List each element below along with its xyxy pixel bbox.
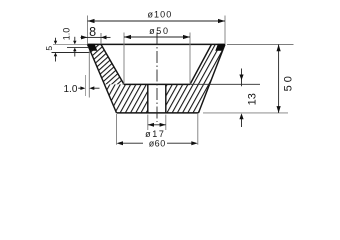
- dim 8 left arrow: [81, 36, 88, 38]
- dim 8 line: [88, 36, 102, 38]
- dim phi60 left segment: [122, 142, 144, 144]
- ext line phi100 left: [87, 16, 89, 45]
- dim line 50: [278, 44, 280, 113]
- wheel bottom face: [117, 112, 199, 114]
- dim 5 top arrow: [55, 38, 57, 41]
- ext line 1.0 step: [67, 47, 89, 49]
- wheel outer left slope: [88, 44, 117, 113]
- abrasive block top-left: [87, 44, 97, 51]
- ext line phi100 right: [224, 16, 226, 45]
- tick 1.0 wall left: [84, 75, 86, 96]
- wheel inner left slope: [101, 44, 124, 84]
- svg-text:1.0: 1.0: [63, 84, 77, 95]
- dim 1.0 wall left arrow: [78, 87, 82, 89]
- svg-text:13: 13: [247, 93, 259, 105]
- svg-text:1.0: 1.0: [61, 28, 71, 41]
- ext line 5 depth: [52, 52, 92, 54]
- wheel outer right slope: [199, 44, 226, 113]
- wheel inner right slope: [190, 44, 212, 84]
- ext line recess floor right: [190, 83, 260, 85]
- ext line rim 8: [100, 33, 102, 44]
- tick 1.0 wall right: [88, 51, 90, 98]
- ext line bore right: [165, 115, 167, 131]
- svg-text:ø60: ø60: [149, 139, 166, 149]
- ext line bottom face right: [203, 112, 288, 114]
- dim 5 bottom arrow: [55, 56, 57, 62]
- svg-text:8: 8: [89, 25, 96, 39]
- recess floor: [124, 83, 190, 85]
- dim 1.0 wall right arrow: [93, 87, 100, 89]
- dim phi60 right segment: [167, 142, 193, 144]
- dim 13 top arrow: [241, 69, 243, 87]
- ext line top face left: [53, 43, 88, 45]
- svg-text:ø50: ø50: [149, 26, 170, 36]
- dim line phi17: [148, 124, 166, 126]
- ext line bore left: [147, 115, 149, 131]
- bore left wall: [147, 84, 149, 113]
- dim 1.0 top arrow: [74, 37, 76, 41]
- svg-text:ø100: ø100: [147, 9, 172, 19]
- hatch right wall: [190, 44, 225, 84]
- wheel top face: [88, 43, 226, 45]
- ext line phi60 right: [197, 114, 199, 145]
- ext line phi50 left: [123, 33, 125, 85]
- ext line phi60 left: [116, 114, 118, 145]
- dim 13 bottom arrow: [241, 117, 243, 127]
- svg-text:5: 5: [44, 46, 54, 51]
- abrasive block top-right: [215, 44, 225, 51]
- dim 1.0 bottom arrow: [74, 51, 76, 57]
- bore right wall: [165, 84, 167, 113]
- hatch left wall: [88, 44, 125, 84]
- ext line phi50 right: [189, 33, 191, 85]
- dim line phi100: [88, 20, 226, 22]
- hatch bottom-left hub: [104, 84, 147, 113]
- dim 8 right arrow: [101, 36, 111, 38]
- dim line phi50: [124, 36, 190, 38]
- svg-text:50: 50: [283, 73, 295, 91]
- centerline: [156, 33, 158, 123]
- hatch bottom-right hub: [166, 84, 210, 113]
- ext line top face right: [227, 44, 294, 46]
